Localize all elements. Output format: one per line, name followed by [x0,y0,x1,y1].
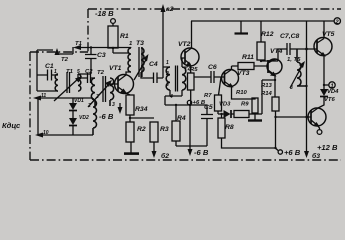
svg-text:VТ2: VТ2 [178,41,191,48]
svg-text:а2: а2 [166,6,174,13]
svg-text:+12 В: +12 В [317,143,338,152]
svg-text:R8: R8 [225,124,234,131]
svg-text:2: 2 [334,20,339,26]
svg-text:-6 В: -6 В [99,112,114,121]
wire +6V node [165,104,207,106]
wire tank loop [37,75,58,91]
arrow T2 [57,47,73,54]
svg-text:-6 В: -6 В [194,148,209,157]
svg-text:С6: С6 [208,64,217,71]
svg-text:Т3: Т3 [136,40,144,47]
svg-text:1: 1 [166,60,169,66]
T2 tuning arrow [88,83,110,107]
diode box bottom wire, pin 10 [38,134,93,136]
svg-text:Т2: Т2 [61,57,69,63]
svg-text:R3: R3 [160,126,169,133]
feedback wire VT4 emitter to R9 [262,80,275,114]
svg-text:R1: R1 [120,33,129,40]
terminal +12V [317,130,322,135]
frame left [29,52,31,160]
wire T2 to VT1 base [110,83,118,85]
svg-text:R14: R14 [261,91,273,97]
T1 tuning arrow [54,78,79,101]
T5 tuning arrow [290,64,303,88]
svg-text:Кдцс: Кдцс [2,121,21,130]
node a2 vertical [163,8,170,78]
ground under R10 [248,119,262,121]
svg-text:11: 11 [41,93,46,99]
node b3 vertical and arrow [307,21,312,154]
node b2 arrow [153,142,155,154]
svg-text:б2: б2 [161,152,169,160]
wire to frame corner [37,50,53,75]
svg-text:VD2: VD2 [79,115,89,121]
frame notch vertical [87,9,89,52]
svg-text:Т2: Т2 [97,70,105,76]
transformer T2 [91,78,95,106]
svg-text:С3: С3 [97,52,106,59]
wire T3 secondary to C4 [141,72,154,78]
svg-text:3: 3 [96,94,99,100]
frame bottom [30,159,341,161]
collector rail to terminal 2 [191,20,334,22]
svg-text:R12: R12 [261,31,274,38]
T3 tuning arrow [134,58,147,80]
ground under R2 [130,142,132,153]
svg-text:3: 3 [112,102,115,108]
svg-text:R13: R13 [261,83,273,89]
svg-text:R7: R7 [204,93,212,99]
terminal 1 [324,84,329,86]
node -6V arrow (right) [189,146,191,152]
svg-text:R2: R2 [137,126,146,133]
svg-text:VD3: VD3 [219,102,231,108]
svg-text:-18 В: -18 В [95,9,114,18]
svg-text:C1: C1 [45,63,54,70]
svg-text:VТ1: VТ1 [109,65,122,72]
diode box left edge [37,98,39,135]
diode box top wire, pin 11 [37,97,93,99]
svg-text:б3: б3 [312,152,320,160]
frame notch horizontal [30,51,88,53]
svg-text:С5: С5 [204,104,213,111]
svg-text:С4: С4 [149,61,158,68]
svg-text:R5: R5 [190,67,198,73]
svg-text:+6 В: +6 В [284,148,301,157]
shield stub [240,21,242,33]
svg-text:R11: R11 [242,54,254,61]
node -6V arrow (left) [119,103,121,110]
svg-text:R9: R9 [241,102,249,108]
svg-text:1: 1 [129,41,132,47]
terminal 2 [334,18,340,24]
capacitor C2 [78,73,95,83]
svg-text:R10: R10 [236,90,248,96]
frame top [88,8,341,10]
svg-text:С7,С8: С7,С8 [280,33,299,40]
junction dots [112,47,114,49]
svg-text:VТ6: VТ6 [324,97,336,103]
svg-text:10: 10 [43,130,49,136]
svg-text:VD4: VD4 [327,89,339,95]
svg-text:R34: R34 [135,106,148,113]
terminal +6V bottom [276,148,279,151]
